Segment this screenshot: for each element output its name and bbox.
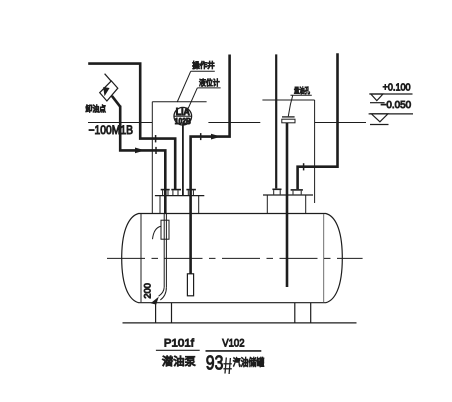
svg-text:V102: V102: [222, 338, 244, 350]
flange tick on header horizontal: [155, 135, 157, 142]
ground line: [123, 322, 357, 324]
manhole plate 1: [155, 195, 204, 197]
arrow at drop tube outlet: [151, 297, 159, 305]
wire unloading header top-left to elbow into tank drop pipe: [88, 64, 175, 189]
datum line left segment: [88, 122, 152, 124]
manhole neck walls 1: [159, 196, 161, 214]
wire valve outlet diagonal: [112, 96, 120, 107]
datum line right segment: [315, 122, 366, 124]
return line elbow from right riser: [298, 53, 338, 189]
svg-text:汽油储罐: 汽油储罐: [233, 356, 264, 369]
svg-text:−100M1B: −100M1B: [89, 123, 134, 137]
flange bar return nozzle: [291, 189, 303, 191]
svg-text:102B: 102B: [175, 116, 191, 126]
manhole neck walls 2: [266, 195, 268, 214]
flange bar vent: [272, 188, 281, 190]
box 2 top: [262, 99, 314, 101]
svg-text:卸油点: 卸油点: [86, 104, 107, 114]
arrow on fill line: [135, 148, 145, 154]
svg-text:P101f: P101f: [164, 338, 195, 350]
operation well box 1 top: [152, 101, 206, 103]
vent riser pipe: [275, 54, 277, 188]
tank support left: [155, 303, 157, 323]
tank centerline: [107, 257, 363, 259]
wire level gauge stem: [182, 125, 184, 195]
tank support right: [294, 303, 296, 323]
flange bar nozzle 1: [161, 189, 170, 191]
flange tick on pump discharge: [200, 133, 202, 140]
tank V102 shell outline: [122, 214, 343, 303]
instrument level gauge bubble LIA 102B: [174, 107, 192, 125]
arrow on pump discharge: [211, 134, 221, 140]
tank right head seam: [323, 214, 325, 302]
svg-text:潜油泵: 潜油泵: [162, 354, 196, 368]
flange tick on return horizontal: [303, 163, 305, 170]
operation well box 1 left wall: [151, 102, 153, 214]
dipstick cap: [282, 116, 295, 118]
drop tube guide bracket: [161, 220, 169, 239]
datum line middle segment: [208, 122, 260, 124]
svg-text:200: 200: [142, 283, 152, 299]
flange bar nozzle 2: [171, 189, 181, 191]
wire drop from valve, elbow right with arrow, into fill pipe: [120, 106, 165, 214]
svg-text:操作井: 操作井: [192, 60, 214, 70]
svg-text:量油孔: 量油孔: [294, 86, 310, 95]
pump P101f discharge column and riser: [191, 55, 230, 274]
valve (unloading point valve, 45 deg): [100, 81, 118, 101]
flange tick on fill line: [155, 147, 157, 154]
box 2 right wall: [314, 100, 316, 203]
svg-text:−0.050: −0.050: [381, 99, 412, 111]
svg-text:液位计: 液位计: [199, 77, 220, 87]
manhole plate 2: [263, 194, 313, 196]
pump body (submersible pump): [187, 274, 193, 296]
wire diagonal stub above valve: [105, 74, 112, 82]
flange bar nozzle 3: [186, 189, 196, 191]
svg-text:+0.100: +0.100: [383, 82, 411, 94]
fill drop tube inside tank (double line): [163, 214, 165, 288]
svg-text:93: 93: [206, 352, 224, 375]
tank left head seam: [140, 214, 142, 302]
dipstick tube into tank: [286, 123, 289, 287]
